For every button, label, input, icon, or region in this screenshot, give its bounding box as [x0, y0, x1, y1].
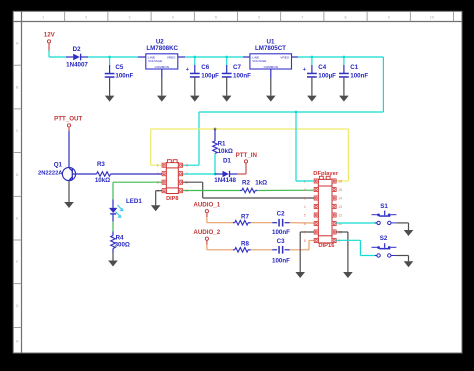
svg-text:8: 8	[345, 15, 347, 19]
svg-text:1kΩ: 1kΩ	[255, 180, 267, 187]
svg-text:R4: R4	[116, 234, 124, 241]
junction C7	[225, 56, 228, 59]
resistor R2 1k	[242, 188, 256, 193]
IC DIP16 DFplayer	[318, 179, 332, 243]
wire C3 to DIP16 pin8	[290, 249, 309, 251]
capacitor C6 100uF	[194, 57, 196, 65]
svg-text:VREG: VREG	[280, 56, 289, 60]
wire R8 to C3	[251, 249, 272, 251]
wire S2 to ground	[396, 255, 408, 257]
svg-text:D: D	[16, 173, 19, 177]
svg-text:LM7805CT: LM7805CT	[255, 45, 286, 52]
svg-text:2: 2	[157, 172, 159, 176]
resistor R4 300	[112, 232, 114, 236]
junction C6	[193, 56, 196, 59]
svg-text:LM7808KC: LM7808KC	[146, 45, 178, 52]
svg-text:C4: C4	[318, 64, 326, 71]
svg-text:VOLTAGE: VOLTAGE	[252, 59, 266, 63]
svg-text:1: 1	[157, 164, 159, 168]
wire D2 to U2	[88, 56, 138, 58]
svg-text:COMMON: COMMON	[264, 65, 278, 69]
svg-text:C2: C2	[277, 211, 285, 218]
svg-text:G: G	[16, 304, 19, 308]
svg-text:+: +	[303, 67, 306, 73]
svg-text:12: 12	[338, 213, 342, 217]
wire DIP16 pin10 to ground	[336, 231, 348, 233]
wire 5V to DIP16 pin1	[295, 112, 297, 181]
svg-text:D2: D2	[73, 46, 81, 53]
svg-text:DIP8: DIP8	[166, 196, 178, 202]
svg-text:4: 4	[304, 205, 306, 209]
wire DIP8 pin3 to LED1	[113, 181, 162, 183]
wire D1 to PTT_IN	[237, 173, 246, 175]
capacitor C4 100uF	[311, 57, 313, 65]
svg-text:2: 2	[304, 188, 306, 192]
junction C5	[108, 56, 111, 59]
wire Q1 emitter to ground	[68, 181, 70, 203]
voltage regulator U2 LM7808KC	[138, 56, 146, 58]
svg-text:H: H	[16, 340, 19, 344]
ground C7	[222, 96, 232, 102]
svg-text:7: 7	[186, 172, 188, 176]
wire AUDIO_1 to R7	[206, 217, 208, 223]
ground S2	[404, 261, 414, 267]
svg-text:C3: C3	[277, 238, 285, 245]
svg-text:DFplayer: DFplayer	[313, 171, 339, 177]
svg-text:R8: R8	[241, 241, 249, 248]
wire DIP8 pin7 to D1	[183, 173, 216, 175]
svg-text:10kΩ: 10kΩ	[95, 177, 110, 184]
svg-text:7: 7	[301, 15, 303, 19]
svg-text:2: 2	[85, 15, 87, 19]
svg-text:7: 7	[304, 230, 306, 234]
ground R4	[108, 261, 118, 267]
capacitor C2 100nF	[272, 222, 277, 224]
svg-text:3: 3	[157, 181, 159, 185]
wire 12V to rail	[48, 51, 50, 58]
wire DIP16 pin7 to ground	[300, 231, 314, 233]
svg-text:1: 1	[42, 15, 44, 19]
svg-text:100µF: 100µF	[201, 73, 219, 80]
svg-text:9: 9	[388, 15, 390, 19]
svg-text:DIP16: DIP16	[318, 243, 335, 249]
wire R1 bottom	[214, 154, 216, 175]
svg-text:100nF: 100nF	[115, 73, 133, 80]
svg-text:C7: C7	[233, 64, 241, 71]
wire LED1 to R4	[112, 222, 114, 232]
svg-text:8: 8	[186, 164, 188, 168]
svg-text:AUDIO_1: AUDIO_1	[193, 202, 220, 209]
capacitor C3 100nF	[272, 249, 277, 251]
wire R4 to ground	[112, 253, 114, 261]
wire DIP8 pin4 to ground	[156, 190, 162, 192]
svg-text:COMMON: COMMON	[155, 65, 169, 69]
svg-text:3: 3	[129, 15, 131, 19]
transistor Q1 2N2222A	[62, 167, 75, 180]
ground C6	[190, 96, 200, 102]
svg-text:6: 6	[304, 222, 306, 226]
junction R1 top	[214, 128, 217, 131]
resistor R8	[233, 249, 235, 251]
junction 5V branch	[295, 111, 298, 114]
node PTT_IN	[244, 160, 247, 163]
svg-text:Q1: Q1	[54, 161, 63, 168]
svg-text:C1: C1	[350, 64, 358, 71]
svg-text:2N2222A: 2N2222A	[38, 171, 63, 177]
ground U2	[157, 96, 167, 102]
ground U1	[266, 96, 276, 102]
wire DIP8 pin5 to R2	[183, 190, 240, 192]
svg-text:R7: R7	[241, 214, 249, 221]
wire PTT_OUT to Q1 collector	[68, 131, 70, 168]
svg-text:AUDIO_2: AUDIO_2	[193, 229, 220, 236]
svg-text:10kΩ: 10kΩ	[218, 148, 233, 155]
diode D2 1N4007	[66, 56, 73, 58]
ground C1	[339, 96, 349, 102]
wire U2 out to U1	[185, 56, 243, 58]
wire yellow VCC net	[151, 164, 162, 166]
svg-text:1N4007: 1N4007	[66, 61, 88, 68]
capacitor C1 100nF	[343, 57, 345, 65]
voltage regulator U1 LM7805CT	[243, 56, 250, 58]
svg-text:S2: S2	[380, 235, 388, 242]
svg-text:5: 5	[186, 189, 188, 193]
svg-text:300Ω: 300Ω	[115, 241, 130, 248]
wire R7 to C2	[251, 222, 272, 224]
wire U1 common to ground	[270, 69, 272, 78]
svg-text:C6: C6	[201, 64, 209, 71]
svg-text:13: 13	[338, 205, 342, 209]
ground DIP16 pin10	[343, 272, 353, 278]
svg-text:5: 5	[304, 213, 306, 217]
svg-text:PTT_IN: PTT_IN	[236, 152, 258, 159]
ground S1	[404, 230, 414, 236]
svg-text:100nF: 100nF	[272, 229, 290, 236]
svg-text:C5: C5	[115, 64, 123, 71]
ground C5	[105, 96, 115, 102]
resistor R3 10k	[97, 172, 111, 177]
svg-text:100nF: 100nF	[272, 258, 290, 265]
ground Q1	[64, 202, 74, 208]
svg-text:3: 3	[304, 196, 306, 200]
capacitor C5 100nF	[109, 57, 111, 65]
svg-text:5: 5	[215, 15, 217, 19]
svg-text:16: 16	[338, 179, 342, 183]
svg-text:100µF: 100µF	[318, 73, 336, 80]
LED LED1	[112, 200, 114, 209]
wire R2 to DIP16 pin2	[257, 189, 314, 191]
wire 5V rail	[298, 56, 383, 58]
resistor R1 10k	[214, 129, 216, 141]
svg-text:14: 14	[338, 196, 342, 200]
wire DIP8 pin6 to DIP16 pin3	[183, 181, 203, 183]
junction D1 anode	[214, 173, 217, 176]
svg-text:100nF: 100nF	[233, 73, 251, 80]
wire R3 to DIP8 pin2	[111, 173, 162, 175]
svg-text:VREG: VREG	[167, 56, 176, 60]
svg-text:8: 8	[304, 239, 306, 243]
svg-text:10: 10	[430, 15, 434, 19]
svg-text:1N4148: 1N4148	[214, 177, 236, 184]
svg-text:C: C	[16, 129, 19, 133]
wire U2 common to ground	[161, 69, 163, 78]
svg-text:6: 6	[258, 15, 260, 19]
capacitor C7 100nF	[226, 57, 228, 65]
svg-text:S1: S1	[380, 203, 388, 210]
wire S1 to ground	[396, 222, 408, 224]
svg-text:R1: R1	[218, 141, 226, 148]
IC DIP8	[166, 163, 178, 194]
svg-text:PTT_OUT: PTT_OUT	[54, 116, 82, 123]
ground DIP16 pin7	[295, 272, 305, 278]
svg-text:R2: R2	[242, 180, 250, 187]
svg-text:LED1: LED1	[126, 198, 142, 205]
svg-text:100nF: 100nF	[350, 73, 368, 80]
svg-text:15: 15	[338, 188, 342, 192]
svg-text:4: 4	[172, 15, 174, 19]
svg-text:12V: 12V	[44, 31, 56, 38]
resistor R7	[233, 222, 235, 224]
svg-text:+: +	[186, 67, 189, 73]
svg-text:VOLTAGE: VOLTAGE	[148, 59, 162, 63]
diode D1 1N4148	[215, 173, 223, 175]
wire C2 to DIP16 pin6	[290, 222, 314, 224]
wire DIP16 pin9 to S2	[336, 239, 360, 241]
wire DIP16 pin11 to S1	[336, 222, 377, 224]
svg-text:R3: R3	[97, 161, 105, 168]
ground C4	[307, 96, 317, 102]
wire AUDIO_2 to R8	[206, 245, 208, 250]
svg-text:D1: D1	[223, 157, 231, 164]
ground DIP8	[151, 205, 161, 211]
